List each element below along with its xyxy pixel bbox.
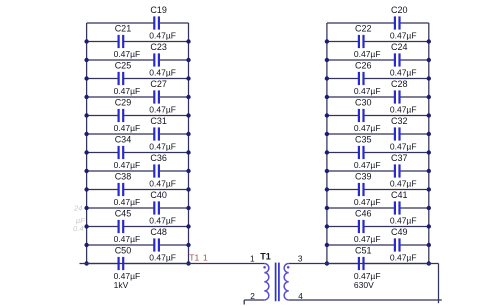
svg-text:C19: C19 xyxy=(150,5,167,15)
svg-text:C49: C49 xyxy=(391,227,408,237)
svg-text:0.47µF: 0.47µF xyxy=(149,216,176,226)
svg-text:C50: C50 xyxy=(115,246,132,256)
svg-text:0.47µF: 0.47µF xyxy=(354,197,381,207)
svg-text:0.47µF: 0.47µF xyxy=(114,160,141,170)
svg-text:C48: C48 xyxy=(150,227,167,237)
svg-text:C21: C21 xyxy=(115,24,132,34)
svg-text:0.47µF: 0.47µF xyxy=(354,123,381,133)
svg-text:C35: C35 xyxy=(355,135,372,145)
svg-text:0.47µF: 0.47µF xyxy=(390,105,417,115)
svg-text:0.47µF: 0.47µF xyxy=(390,68,417,78)
svg-text:C20: C20 xyxy=(391,5,408,15)
svg-text:C27: C27 xyxy=(150,79,167,89)
svg-text:0.47µF: 0.47µF xyxy=(149,142,176,152)
svg-text:0.47µF: 0.47µF xyxy=(390,253,417,263)
svg-text:0.47µF: 0.47µF xyxy=(149,253,176,263)
svg-text:C25: C25 xyxy=(115,61,132,71)
svg-text:C41: C41 xyxy=(391,190,408,200)
svg-text:0.47µF: 0.47µF xyxy=(114,86,141,96)
svg-text:0.47µF: 0.47µF xyxy=(149,31,176,41)
svg-text:24: 24 xyxy=(73,203,82,212)
svg-text:1kV: 1kV xyxy=(114,280,129,290)
svg-text:0.47µF: 0.47µF xyxy=(390,142,417,152)
svg-text:0.47µF: 0.47µF xyxy=(354,160,381,170)
svg-text:0.47µF: 0.47µF xyxy=(114,197,141,207)
svg-text:C32: C32 xyxy=(391,116,408,126)
svg-text:C28: C28 xyxy=(391,79,408,89)
svg-text:C40: C40 xyxy=(150,190,167,200)
svg-text:0.47µF: 0.47µF xyxy=(354,86,381,96)
svg-text:4: 4 xyxy=(298,291,303,301)
svg-text:0.47µF: 0.47µF xyxy=(149,68,176,78)
svg-text:C37: C37 xyxy=(391,153,408,163)
svg-text:C45: C45 xyxy=(115,209,132,219)
svg-text:C23: C23 xyxy=(150,42,167,52)
svg-text:C38: C38 xyxy=(115,172,132,182)
svg-text:0.47µF: 0.47µF xyxy=(390,216,417,226)
svg-text:C24: C24 xyxy=(391,42,408,52)
svg-text:C31: C31 xyxy=(150,116,167,126)
svg-text:C51: C51 xyxy=(355,246,372,256)
svg-text:1: 1 xyxy=(203,253,208,263)
svg-text:C26: C26 xyxy=(355,61,372,71)
svg-text:0.47µF: 0.47µF xyxy=(114,49,141,59)
svg-text:0.47µF: 0.47µF xyxy=(354,49,381,59)
svg-text:C29: C29 xyxy=(115,98,132,108)
svg-text:3: 3 xyxy=(298,253,303,263)
svg-text:C36: C36 xyxy=(150,153,167,163)
svg-text:T1: T1 xyxy=(189,253,199,263)
svg-text:1: 1 xyxy=(250,253,255,263)
svg-text:C34: C34 xyxy=(115,135,132,145)
svg-text:630V: 630V xyxy=(354,280,374,290)
svg-text:0.47µF: 0.47µF xyxy=(114,123,141,133)
svg-text:0.47µF: 0.47µF xyxy=(114,234,141,244)
svg-text:C22: C22 xyxy=(355,24,372,34)
svg-text:C39: C39 xyxy=(355,172,372,182)
svg-text:C30: C30 xyxy=(355,98,372,108)
svg-text:0.4: 0.4 xyxy=(73,224,84,233)
svg-text:T1: T1 xyxy=(260,252,271,262)
svg-text:C46: C46 xyxy=(355,209,372,219)
svg-text:0.47µF: 0.47µF xyxy=(149,179,176,189)
svg-text:0.47µF: 0.47µF xyxy=(149,105,176,115)
svg-text:2: 2 xyxy=(250,291,255,301)
svg-text:0.47µF: 0.47µF xyxy=(354,234,381,244)
svg-text:0.47µF: 0.47µF xyxy=(390,179,417,189)
svg-text:0.47µF: 0.47µF xyxy=(390,31,417,41)
